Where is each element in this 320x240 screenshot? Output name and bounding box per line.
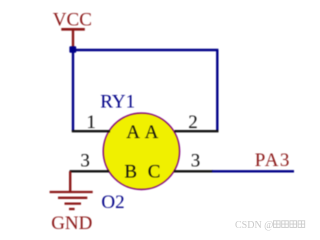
pin 1 wire	[72, 130, 110, 132]
svg-text:3: 3	[80, 150, 90, 171]
svg-text:PA3: PA3	[255, 150, 291, 171]
svg-text:GND: GND	[51, 213, 92, 234]
svg-text:3: 3	[191, 151, 201, 172]
pin 3 left wire	[70, 170, 109, 172]
svg-text:B: B	[124, 162, 137, 183]
ground stem	[69, 171, 71, 192]
relay U? coil circle RY1	[103, 113, 179, 189]
watermark	[235, 220, 305, 231]
svg-text:VCC: VCC	[53, 10, 92, 31]
wire right vertical	[216, 50, 218, 131]
svg-text:RY1: RY1	[100, 92, 135, 113]
svg-text:A: A	[145, 122, 159, 143]
ground bar 4	[69, 208, 75, 210]
svg-text:A: A	[126, 122, 140, 143]
svg-text:1: 1	[86, 112, 96, 133]
wire left vertical	[72, 50, 74, 131]
svg-text:C: C	[148, 162, 161, 183]
net wire PA3	[212, 170, 294, 172]
svg-text:O2: O2	[101, 192, 124, 213]
pin 3 right wire	[174, 170, 213, 172]
ground bar 1	[50, 191, 93, 193]
wire VCC top horizontal	[72, 49, 218, 51]
pin 2 wire	[175, 130, 219, 132]
ground bar 3	[65, 202, 82, 204]
svg-text:CSDN @: CSDN @	[235, 220, 273, 231]
junction	[69, 46, 76, 53]
ground bar 2	[58, 197, 87, 199]
svg-text:2: 2	[188, 112, 198, 133]
